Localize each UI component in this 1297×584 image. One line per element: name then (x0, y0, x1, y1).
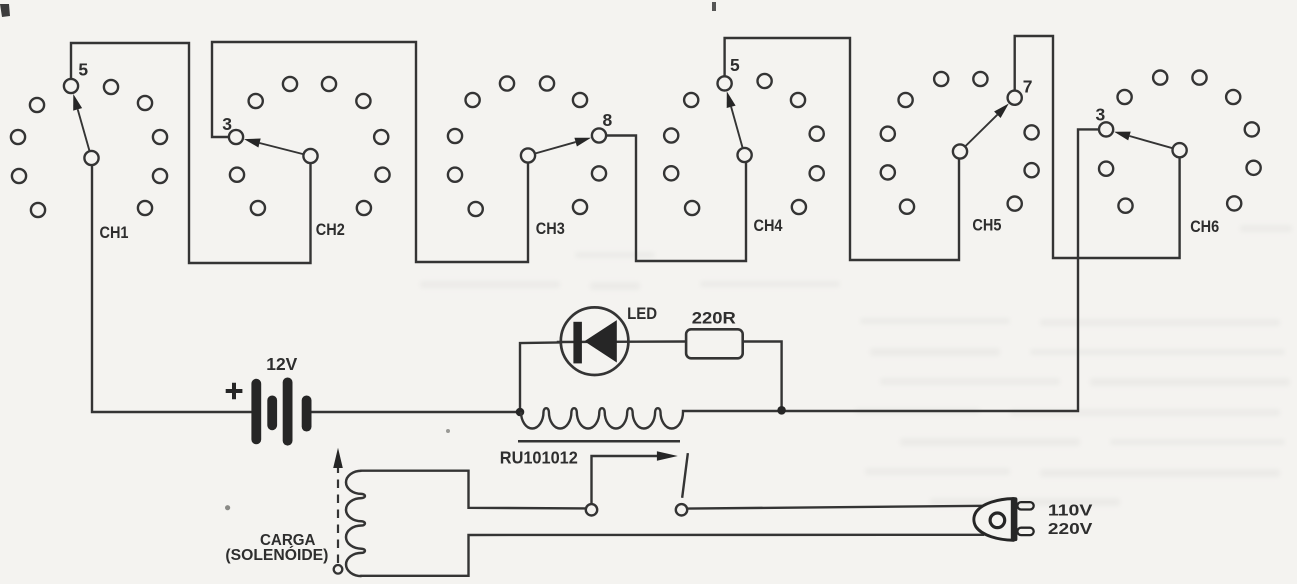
node B junction dot (777, 406, 786, 415)
rotary switch CH1 pole (84, 151, 98, 165)
wire through LED to resistor (558, 340, 686, 343)
rotary switch CH5 pole (953, 144, 967, 158)
relay K1 common terminal (586, 504, 597, 515)
resistor R1 220R (686, 329, 743, 358)
label CH6 position 3 (1096, 105, 1106, 125)
wire CH2 contact3 to top rail over to CH3 pole (212, 42, 528, 262)
wire solenoid bottom to mains plug bottom (362, 535, 984, 576)
svg-text:CH3: CH3 (536, 219, 565, 238)
label 220R (692, 309, 736, 328)
battery plus sign (226, 383, 243, 400)
svg-text:(SOLENÓIDE): (SOLENÓIDE) (225, 546, 328, 564)
svg-text:CH2: CH2 (316, 220, 345, 239)
label CH5 position 7 (1023, 76, 1033, 96)
svg-text:CH6: CH6 (1190, 217, 1219, 236)
svg-text:8: 8 (603, 110, 613, 130)
wire CH1 contact5 to top rail over to CH2 pole (71, 43, 311, 263)
svg-text:LED: LED (627, 304, 657, 323)
scan speck left of battery (225, 505, 230, 510)
svg-text:CH1: CH1 (100, 223, 129, 242)
label CH1 position 5 (78, 60, 88, 80)
label CARGA (260, 532, 316, 549)
mains plug P1 (974, 497, 1034, 541)
scan speck top-center (712, 2, 716, 11)
svg-text:3: 3 (1096, 105, 1106, 125)
rotary switch CH2 pole (303, 149, 317, 163)
LED D1 (561, 307, 629, 375)
rotary switch CH6 pole (1173, 143, 1187, 157)
svg-text:RU101012: RU101012 (500, 447, 578, 467)
rotary switch CH6 contacts (1099, 71, 1261, 213)
node A junction dot (516, 408, 525, 417)
svg-text:3: 3 (222, 114, 232, 134)
label CH2 position 3 (222, 114, 232, 134)
rotary switch CH2 contacts (229, 77, 390, 215)
solenoid plunger terminal circle (334, 565, 343, 574)
rotary switch CH3 pole (521, 148, 535, 162)
svg-text:5: 5 (730, 55, 740, 75)
solenoid plunger dashed arrow (333, 448, 343, 563)
label CH6 (1190, 217, 1219, 236)
wire CH4 contact5 to top rail over to CH5 pole (725, 38, 959, 260)
rotary switch CH1 selector arrow (73, 94, 91, 158)
wire relay NO terminal to mains plug top (688, 506, 982, 509)
label SOLENOIDE (225, 546, 328, 564)
svg-text:220V: 220V (1048, 521, 1093, 538)
rotary switch CH4 contacts (664, 74, 824, 215)
scan speck top-left (0, 4, 10, 17)
wire solenoid top to relay common terminal (362, 471, 586, 509)
svg-text:220R: 220R (692, 309, 736, 328)
rotary switch CH4 selector arrow (727, 91, 745, 155)
rotary switch CH6 selector arrow (1114, 132, 1180, 151)
scan speck mid (446, 429, 450, 433)
label CH5 (972, 215, 1001, 234)
relay K1 coil (521, 408, 683, 428)
svg-text:110V: 110V (1048, 502, 1093, 519)
wire CH6 contact3 down to relay coil rail (683, 129, 1098, 411)
rotary switch CH5 selector arrow (960, 104, 1009, 152)
svg-text:5: 5 (78, 60, 88, 80)
wire CH3 contact8 over to CH4 pole (608, 136, 747, 262)
wire CH5 contact7 to top rail over to CH6 pole (1015, 36, 1180, 258)
wire relay common terminal up to moving arm (592, 456, 660, 504)
label CH3 position 8 (603, 110, 613, 130)
rotary switch CH4 pole (738, 148, 752, 162)
label LED (627, 304, 657, 323)
paper print-through noise (decorative) (420, 225, 1292, 506)
svg-text:12V: 12V (266, 354, 297, 374)
label 110V (1048, 502, 1093, 519)
wire CH1 pole down to battery positive (92, 167, 251, 413)
relay K1 NO terminal (676, 504, 687, 515)
label 12V (266, 354, 297, 374)
wire battery negative to junction node A (312, 411, 521, 413)
label CH4 position 5 (730, 55, 740, 75)
label 220V (1048, 521, 1093, 538)
rotary switch CH5 contacts (881, 72, 1039, 214)
label CH1 (100, 223, 129, 242)
battery B1 12V (251, 378, 311, 446)
wire junction node A up to LED anode (520, 343, 560, 413)
label CH4 (754, 216, 783, 235)
rotary switch CH1 contacts (11, 79, 167, 217)
rotary switch CH3 contacts (448, 76, 606, 216)
rotary switch CH3 selector arrow (528, 138, 591, 156)
label RU101012 (500, 447, 578, 467)
relay K1 core bar (518, 440, 680, 443)
svg-text:CH4: CH4 (754, 216, 783, 235)
svg-text:7: 7 (1023, 76, 1033, 96)
solenoid L1 carga coil (346, 471, 365, 576)
relay K1 arm arrowhead (657, 451, 678, 461)
rotary switch CH2 selector arrow (244, 139, 311, 157)
label CH2 (316, 220, 345, 239)
wire resistor to junction node B (743, 342, 782, 411)
wire relay NO blade (682, 454, 687, 496)
label CH3 (536, 219, 565, 238)
svg-text:CH5: CH5 (972, 215, 1001, 234)
